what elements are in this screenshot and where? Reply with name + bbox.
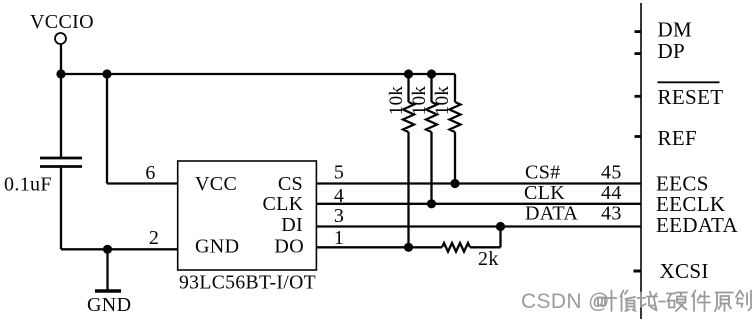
svg-text:DM: DM	[658, 18, 693, 42]
svg-text:RESET: RESET	[658, 85, 724, 109]
svg-text:10k: 10k	[409, 86, 430, 116]
node: GND junction	[103, 245, 112, 254]
pin stub DM	[635, 30, 642, 33]
svg-text:6: 6	[145, 162, 155, 184]
wire: down to ground symbol	[106, 249, 108, 290]
wire: VCC branch down	[106, 74, 108, 184]
wire: DATA net row	[316, 225, 641, 227]
svg-text:CLK: CLK	[524, 182, 565, 204]
svg-text:DI: DI	[281, 214, 303, 236]
node: rail/R2 junction	[427, 69, 436, 78]
svg-text:VCCIO: VCCIO	[30, 11, 94, 33]
pin stub RESET	[635, 95, 642, 98]
svg-text:45: 45	[601, 162, 622, 184]
倾	[621, 291, 636, 312]
wire: rail down to capacitor top	[60, 74, 62, 157]
svg-text:CLK: CLK	[262, 193, 303, 215]
wire: into chip VCC pin 6	[107, 182, 178, 184]
创	[736, 291, 751, 311]
node: R1 to DO row	[404, 243, 413, 252]
svg-text:2k: 2k	[478, 248, 499, 270]
dash	[659, 301, 665, 303]
wire: capacitor bottom lead down	[60, 167, 62, 249]
原	[715, 293, 733, 312]
svg-text:93LC56BT-I/OT: 93LC56BT-I/OT	[179, 272, 316, 294]
pin stub XCSI	[634, 270, 642, 273]
svg-text:DP: DP	[658, 39, 686, 63]
resistor R1 10k	[407, 74, 409, 102]
wire: riser up to DATA net	[499, 227, 501, 248]
wire: top power rail	[61, 73, 455, 75]
wire: CLK net row	[316, 203, 641, 205]
host IC edge line	[640, 3, 642, 319]
svg-text:XCSI: XCSI	[660, 259, 709, 283]
node: R3 to CS row	[450, 179, 459, 188]
svg-text:DO: DO	[274, 236, 304, 258]
node: rail/VCC-branch junction	[102, 69, 111, 78]
svg-text:44: 44	[601, 182, 622, 204]
wire: terminal to top rail	[60, 44, 62, 75]
svg-text:DATA: DATA	[525, 203, 578, 225]
svg-text:43: 43	[601, 203, 622, 225]
node: rail/cap junction	[56, 69, 65, 78]
svg-text:10k: 10k	[432, 86, 453, 116]
svg-text:1: 1	[334, 227, 344, 249]
svg-text:3: 3	[334, 205, 344, 227]
pin stub REF	[635, 135, 642, 138]
svg-text:CS: CS	[278, 173, 303, 195]
node: riser/DATA junction	[496, 222, 505, 231]
svg-text:2: 2	[149, 227, 159, 249]
svg-text:0.1uF: 0.1uF	[4, 174, 52, 196]
svg-text:CS#: CS#	[525, 162, 561, 184]
svg-text:REF: REF	[658, 126, 698, 150]
svg-text:10k: 10k	[386, 86, 407, 116]
node: rail/R1 junction	[404, 69, 413, 78]
城	[638, 292, 658, 311]
svg-text:EEDATA: EEDATA	[656, 213, 739, 237]
硬	[667, 293, 687, 312]
wire: 2k to riser	[470, 246, 501, 248]
wire: bottom wire to chip GND pin 2	[61, 248, 178, 250]
resistor R2 10k	[430, 74, 432, 102]
wire: CS net row	[316, 182, 641, 184]
svg-text:GND: GND	[195, 236, 239, 258]
svg-text:GND: GND	[87, 294, 131, 316]
ground symbol bar	[95, 289, 121, 293]
VCCIO terminal circle	[55, 33, 66, 44]
svg-text:5: 5	[334, 162, 344, 184]
pin stub DP	[635, 52, 642, 55]
capacitor C 0.1uF plates	[40, 157, 82, 160]
svg-text:VCC: VCC	[195, 173, 237, 195]
svg-text:CSDN @: CSDN @	[521, 290, 610, 313]
resistor R4 2k	[442, 243, 470, 252]
叶	[598, 291, 617, 312]
watermark CJK glyphs	[598, 291, 751, 312]
node: R2 to CLK row	[427, 199, 436, 208]
IC U1 body	[178, 161, 317, 270]
wire: DO pin row	[316, 246, 442, 248]
resistor R3 10k	[454, 74, 456, 102]
件	[692, 291, 710, 312]
